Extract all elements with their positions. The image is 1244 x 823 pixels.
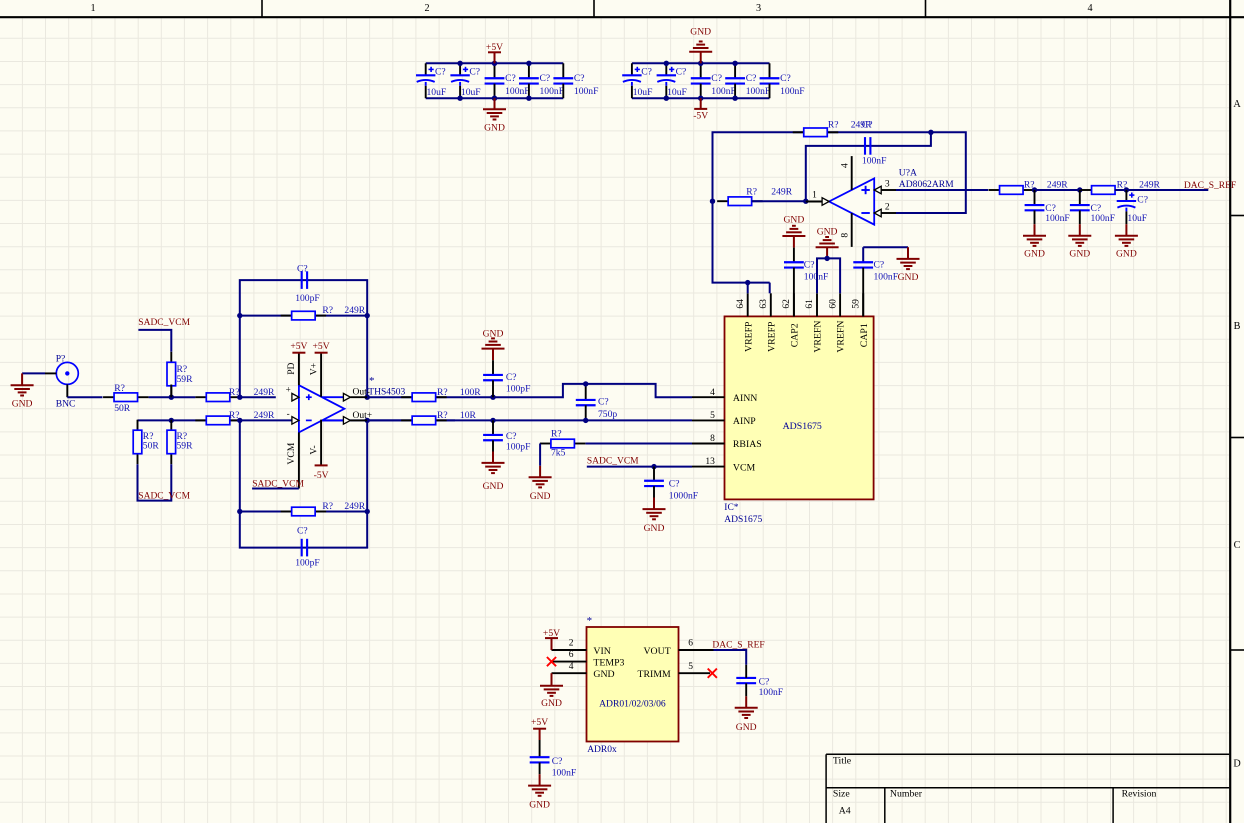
svg-text:100R: 100R [460,387,481,398]
node G junction [1077,187,1082,192]
svg-text:50R: 50R [114,403,131,414]
svg-text:C?: C? [641,67,652,78]
wire BNC to GND [22,372,45,374]
svg-text:C?: C? [759,676,770,687]
pin 5 TRIMM [637,662,710,680]
svg-text:100nF: 100nF [874,271,899,282]
svg-text:R?: R? [828,119,839,130]
svg-text:249R: 249R [254,410,275,421]
ground GND (left bank) [483,98,506,133]
svg-text:Size: Size [833,788,851,799]
svg-text:-5V: -5V [314,470,329,481]
svg-text:GND: GND [529,799,550,810]
svg-text:100nF: 100nF [711,86,736,97]
wire R249R to opamp + pin [241,396,276,398]
wire bottom feedback res [240,511,367,513]
junctions top fb [237,313,370,400]
node A junction [169,395,174,400]
svg-text:A: A [1233,99,1241,110]
svg-text:C?: C? [297,526,308,537]
resistor R? 249R (AD in) [717,186,793,205]
wire output node to VREFP pins [713,201,770,293]
svg-text:59R: 59R [177,374,194,385]
svg-text:2: 2 [424,3,429,14]
pin 59 CAP1 [851,293,869,347]
resistor R? 59R (shunt) [167,420,193,465]
reference U? ADR01 body [587,615,679,741]
svg-text:CAP2: CAP2 [790,323,801,347]
svg-text:*: * [587,615,593,627]
power -5V (right bank) [693,98,708,121]
svg-text:100nF: 100nF [540,86,565,97]
capacitor C? (100nF, left bank #3) [485,63,530,98]
svg-text:249R: 249R [344,501,365,512]
svg-text:A4: A4 [839,806,851,817]
resistor R? 249R (- path) [195,410,275,425]
no-ERC marker (TRIMM) [708,669,717,678]
svg-text:GND: GND [644,523,665,534]
svg-text:GND: GND [898,272,919,283]
svg-text:C?: C? [435,67,446,78]
ground GND (BNC) [11,373,34,409]
svg-text:R?: R? [322,305,333,316]
capacitor C? 100nF (chain 1) [1025,190,1070,224]
ground GND (1000nF) [643,498,666,534]
svg-text:C?: C? [505,73,516,84]
svg-text:TRIMM: TRIMM [637,669,670,680]
resistor R? 249R (chain 1) [989,180,1069,195]
svg-text:Revision: Revision [1122,788,1157,799]
svg-text:GND: GND [784,214,805,225]
svg-text:61: 61 [805,299,815,309]
capacitor C? 100pF (top fb) [295,264,320,305]
svg-text:V-: V- [309,445,320,454]
capacitor C? 100nF (DAC_S_REF) [736,665,783,698]
svg-text:-5V: -5V [693,111,708,122]
net label DAC_S_REF (top) [1184,181,1236,191]
svg-text:4: 4 [840,163,850,168]
svg-text:249R: 249R [1047,180,1068,191]
capacitor C? 100nF (CAP2) [784,248,828,317]
wire fb cap branch [806,132,931,201]
svg-text:AINN: AINN [733,393,758,404]
ground GND (chain 3) [1115,224,1138,259]
svg-text:10uF: 10uF [461,87,481,98]
svg-text:GND: GND [1024,249,1045,260]
svg-text:ADS1675: ADS1675 [724,515,762,525]
junctions 750p [583,381,588,423]
junctions left bank [457,61,531,101]
pin 62 CAP2 [782,293,800,347]
svg-text:DAC_S_REF: DAC_S_REF [1184,181,1236,191]
svg-text:GND: GND [484,123,505,134]
capacitor C? 100pF (AINN shunt) [483,360,530,397]
power +5V (THS V+) [313,341,330,353]
svg-text:63: 63 [759,299,769,309]
svg-text:4: 4 [710,388,715,398]
svg-text:C?: C? [506,372,517,383]
resistor R? 50R [103,383,149,414]
wire bottom feedback cap [240,420,367,547]
resistor R? 50R (shunt) [133,420,159,465]
svg-text:+5V: +5V [290,341,307,352]
pin 13 VCM [692,457,756,473]
svg-text:R?: R? [114,383,125,394]
connector P? BNC [45,353,78,409]
svg-text:VOUT: VOUT [643,646,670,657]
wire CAP1 to GND [863,246,908,248]
svg-text:GND: GND [1069,249,1090,260]
capacitor C? (100nF, right bank #4) [725,63,770,98]
wire left bank top rail [426,62,564,64]
resistor R? 7k5 [540,429,586,459]
ground GND (below C100pF) [482,452,505,492]
node C junction [490,395,495,400]
svg-text:+5V: +5V [531,717,548,728]
svg-text:SADC_VCM: SADC_VCM [138,491,190,501]
svg-text:1000nF: 1000nF [669,491,698,502]
svg-text:R?: R? [746,186,757,197]
svg-text:GND: GND [541,698,562,709]
ground GND (above C100pF) [482,329,505,361]
pin 6 TEMP3 [552,650,625,668]
svg-text:10uF: 10uF [427,87,447,98]
ground GND (CAP2) [782,214,805,247]
svg-text:GND: GND [1116,249,1137,260]
svg-text:B: B [1234,321,1241,332]
svg-text:C: C [1234,540,1241,551]
wire right bank bottom rail [632,97,770,99]
svg-text:249R: 249R [344,305,365,316]
svg-text:GND: GND [12,398,33,409]
svg-text:C?: C? [746,73,757,84]
svg-text:CAP1: CAP1 [859,323,870,347]
capacitor C? (10uF, right bank #1) [622,63,652,98]
wire BNC to R50R node [67,396,102,398]
ground GND (bottom left) [528,774,551,810]
capacitor C? 100pF (bottom fb) [295,526,320,569]
designator ADR0x [587,745,617,755]
wire chain seg1 [1034,189,1080,191]
capacitor C? 1000nF [644,467,698,502]
resistor R? 59R (top) [167,352,193,397]
svg-text:R?: R? [322,501,333,512]
ground GND (CAP1) [897,247,920,283]
power +5V (ADR VIN) [543,628,560,650]
ADC IC* ADS1675 body [725,316,874,499]
svg-text:ADR0x: ADR0x [587,745,617,755]
pin 61 VREFN [805,293,823,352]
net label SADC_VCM (bottom) [138,491,190,501]
svg-text:10uF: 10uF [667,87,687,98]
svg-text:BNC: BNC [56,398,76,409]
svg-text:10R: 10R [460,410,477,421]
svg-text:C?: C? [297,264,308,275]
power +5V (bottom left) [531,717,548,740]
ground GND (7k5) [529,466,552,502]
svg-text:100nF: 100nF [552,767,577,778]
svg-text:62: 62 [782,299,792,309]
resistor R? 10R [401,410,476,425]
resistor R? 249R (+ path) [195,387,275,402]
pin 64 VREFP [736,293,754,352]
svg-text:10uF: 10uF [1127,213,1147,224]
svg-text:3: 3 [885,180,890,190]
svg-text:4: 4 [1087,3,1092,14]
pin 6 VOUT [643,638,713,657]
svg-text:PD: PD [286,362,297,374]
wire left bank bottom rail [426,97,564,99]
svg-text:100pF: 100pF [506,383,531,394]
svg-text:Number: Number [890,788,923,799]
svg-text:ADR01/02/03/06: ADR01/02/03/06 [599,699,666,710]
svg-text:7k5: 7k5 [551,448,566,459]
resistor R? 100R [401,387,481,402]
svg-text:AINP: AINP [733,416,756,427]
pin 4 AINN [692,388,757,404]
no-ERC marker (TEMP3) [547,657,556,666]
power +5V (THS PD) [290,341,307,353]
capacitor C? 100nF (AD fb) [862,120,887,167]
wire 7k5 left to GND [539,444,541,466]
svg-text:C?: C? [540,73,551,84]
svg-text:-: - [287,409,290,419]
svg-text:GND: GND [817,227,838,238]
svg-text:C?: C? [874,259,885,270]
svg-text:59: 59 [851,299,861,309]
wire VCM to SADC_VCM [252,488,299,490]
svg-text:D: D [1233,759,1240,770]
svg-text:VREFP: VREFP [766,321,777,352]
svg-text:100nF: 100nF [505,86,530,97]
svg-text:5: 5 [710,411,715,421]
designator IC* ADS1675 [724,503,762,525]
junction VREFN [824,256,829,261]
svg-text:IC*: IC* [724,503,739,513]
svg-text:C?: C? [598,396,609,407]
svg-text:1: 1 [812,190,817,200]
svg-text:64: 64 [736,299,746,309]
wire Rin to pin1 [752,200,806,202]
svg-text:750p: 750p [598,409,617,420]
svg-text:100nF: 100nF [746,86,771,97]
svg-text:TEMP3: TEMP3 [593,657,624,668]
wire R59R to node A [170,385,172,398]
svg-text:GND: GND [483,481,504,492]
pin 2 VIN [552,638,611,657]
svg-text:C?: C? [780,73,791,84]
resistor R? 249R (chain 2) [1081,180,1161,195]
svg-text:100nF: 100nF [780,86,805,97]
wire top feedback res [240,315,367,317]
net label DAC_S_REF (ADR) [712,641,764,651]
svg-text:+5V: +5V [486,42,503,53]
pin 4 GND [552,662,615,680]
svg-text:P?: P? [56,353,66,364]
ground GND (right bank top) [689,27,712,64]
wire R50R to node A [149,396,196,398]
svg-text:VIN: VIN [593,646,610,657]
svg-text:+: + [286,384,291,394]
svg-text:100nF: 100nF [759,687,784,698]
capacitor C? 100nF (CAP1) [853,247,898,316]
svg-text:249R: 249R [1139,180,1160,191]
power -5V (THS V-) [314,465,329,481]
capacitor C? (100nF, left bank #4) [519,63,564,98]
pin 8 RBIAS [692,434,762,450]
capacitor C? (10uF, right bank #2) [657,63,687,98]
svg-text:50R: 50R [143,441,160,452]
svg-text:C?: C? [862,120,873,131]
pin 63 VREFP [759,293,777,352]
svg-text:2: 2 [569,638,574,648]
svg-text:AD8062ARM: AD8062ARM [899,179,954,190]
svg-text:10uF: 10uF [633,87,653,98]
svg-text:GND: GND [593,669,614,680]
svg-text:13: 13 [705,457,715,467]
node E junction [651,464,656,469]
op-amp U7A AD8062ARM [806,156,954,247]
svg-text:R?: R? [437,387,448,398]
svg-text:100nF: 100nF [1091,213,1116,224]
svg-text:V+: V+ [309,363,320,375]
svg-text:C?: C? [1137,194,1148,205]
svg-text:C?: C? [506,431,517,442]
svg-text:VCM: VCM [733,462,756,473]
svg-text:2: 2 [885,203,890,213]
capacitor C? 100nF (chain 2) [1070,190,1115,224]
svg-text:Title: Title [833,755,852,766]
wire right bank top rail [632,62,770,64]
wire SADC_VCM to ADS VCM [587,466,692,468]
svg-text:R?: R? [437,410,448,421]
svg-text:100nF: 100nF [574,86,599,97]
junction fb [710,130,934,204]
node F junction [1032,187,1037,192]
wire Out- to ADS AINN [367,384,692,397]
wire VREFN tie [817,258,840,293]
ground GND (ADR) [540,673,563,709]
capacitor C? 100nF (bottom left) [530,740,577,778]
svg-text:6: 6 [569,650,574,660]
capacitor C? (10uF, left bank #1) [416,63,446,98]
ground GND (VREFN) [816,227,839,259]
svg-text:100pF: 100pF [506,442,531,453]
svg-text:+5V: +5V [313,341,330,352]
svg-text:VREFN: VREFN [813,321,824,353]
svg-text:C?: C? [711,73,722,84]
svg-text:8: 8 [710,434,715,444]
capacitor C? 10uF (chain) [1117,190,1148,224]
resistor R? 249R (bottom fb) [281,501,366,516]
svg-text:SADC_VCM: SADC_VCM [138,318,190,328]
capacitor C? (100nF, right bank #5) [760,63,805,98]
junctions right bank [664,61,738,101]
capacitor C? (10uF, left bank #2) [450,63,480,98]
node B junction [169,418,174,423]
ground GND (DAC cap) [735,696,758,733]
svg-text:100nF: 100nF [862,155,887,166]
net label SADC_VCM (VCM pin) [252,479,304,489]
svg-text:*: * [369,375,375,387]
pin 5 AINP [692,411,756,427]
svg-text:1: 1 [90,3,95,14]
svg-text:SADC_VCM: SADC_VCM [587,456,639,466]
svg-text:U?A: U?A [899,167,917,178]
node D junction [490,418,495,423]
svg-text:GND: GND [483,329,504,340]
node H junction [1124,187,1129,192]
svg-text:5: 5 [688,662,693,672]
svg-text:249R: 249R [771,186,792,197]
wire VOUT to cap [714,650,747,665]
svg-text:4: 4 [569,662,574,672]
junctions bottom fb [237,418,370,515]
svg-text:60: 60 [828,299,838,309]
wire shunt resistors to SADC_VCM [138,464,172,500]
svg-text:C?: C? [552,756,563,767]
svg-text:ADS1675: ADS1675 [783,421,822,432]
svg-text:249R: 249R [254,387,275,398]
power +5V (left bank) [486,42,503,63]
svg-text:GND: GND [690,27,711,38]
resistor R? 249R (top fb) [281,305,366,320]
svg-text:C?: C? [804,259,815,270]
svg-text:6: 6 [688,638,693,648]
pin 60 VREFN [828,293,846,352]
svg-text:C?: C? [469,67,480,78]
svg-text:+5V: +5V [543,628,560,639]
wire SADC_VCM stub to R59R [138,330,171,352]
svg-text:100pF: 100pF [295,293,320,304]
svg-text:8: 8 [840,233,850,238]
net label SADC_VCM (top) [138,318,190,328]
svg-text:100pF: 100pF [295,557,320,568]
net label SADC_VCM (ADS VCM) [587,456,639,466]
capacitor C? (100nF, right bank #3) [691,63,736,98]
svg-text:R?: R? [551,429,562,440]
ground GND (chain 1) [1023,224,1046,259]
svg-text:59R: 59R [177,441,194,452]
wire Out+ to ADS AINP [367,419,692,421]
ground GND (chain 2) [1068,224,1091,259]
svg-text:C?: C? [669,478,680,489]
wire pin3 to chain [896,189,988,191]
svg-text:3: 3 [756,3,761,14]
op-amp U? THS4503 [286,353,406,489]
svg-text:C?: C? [574,73,585,84]
svg-text:VCM: VCM [286,442,297,464]
wire - path [138,419,456,421]
capacitor C? (100nF, left bank #5) [553,63,598,98]
svg-text:VREFN: VREFN [836,321,847,353]
svg-text:GND: GND [530,491,551,502]
capacitor C? 750p (diff) [576,384,618,421]
svg-text:RBIAS: RBIAS [733,439,762,450]
svg-text:100nF: 100nF [1045,213,1070,224]
capacitor C? 100pF (AINP shunt) [483,420,530,452]
title block [826,754,1229,823]
svg-text:VREFP: VREFP [743,321,754,352]
resistor R? 249R (AD fb) [793,119,872,136]
svg-text:GND: GND [736,722,757,733]
wire 7k5 to ADS RBIAS [586,443,693,445]
wire top feedback [713,132,966,213]
wire top feedback cap [240,280,367,397]
wire chain to DAC_S_REF [1115,189,1209,191]
svg-text:C?: C? [676,67,687,78]
